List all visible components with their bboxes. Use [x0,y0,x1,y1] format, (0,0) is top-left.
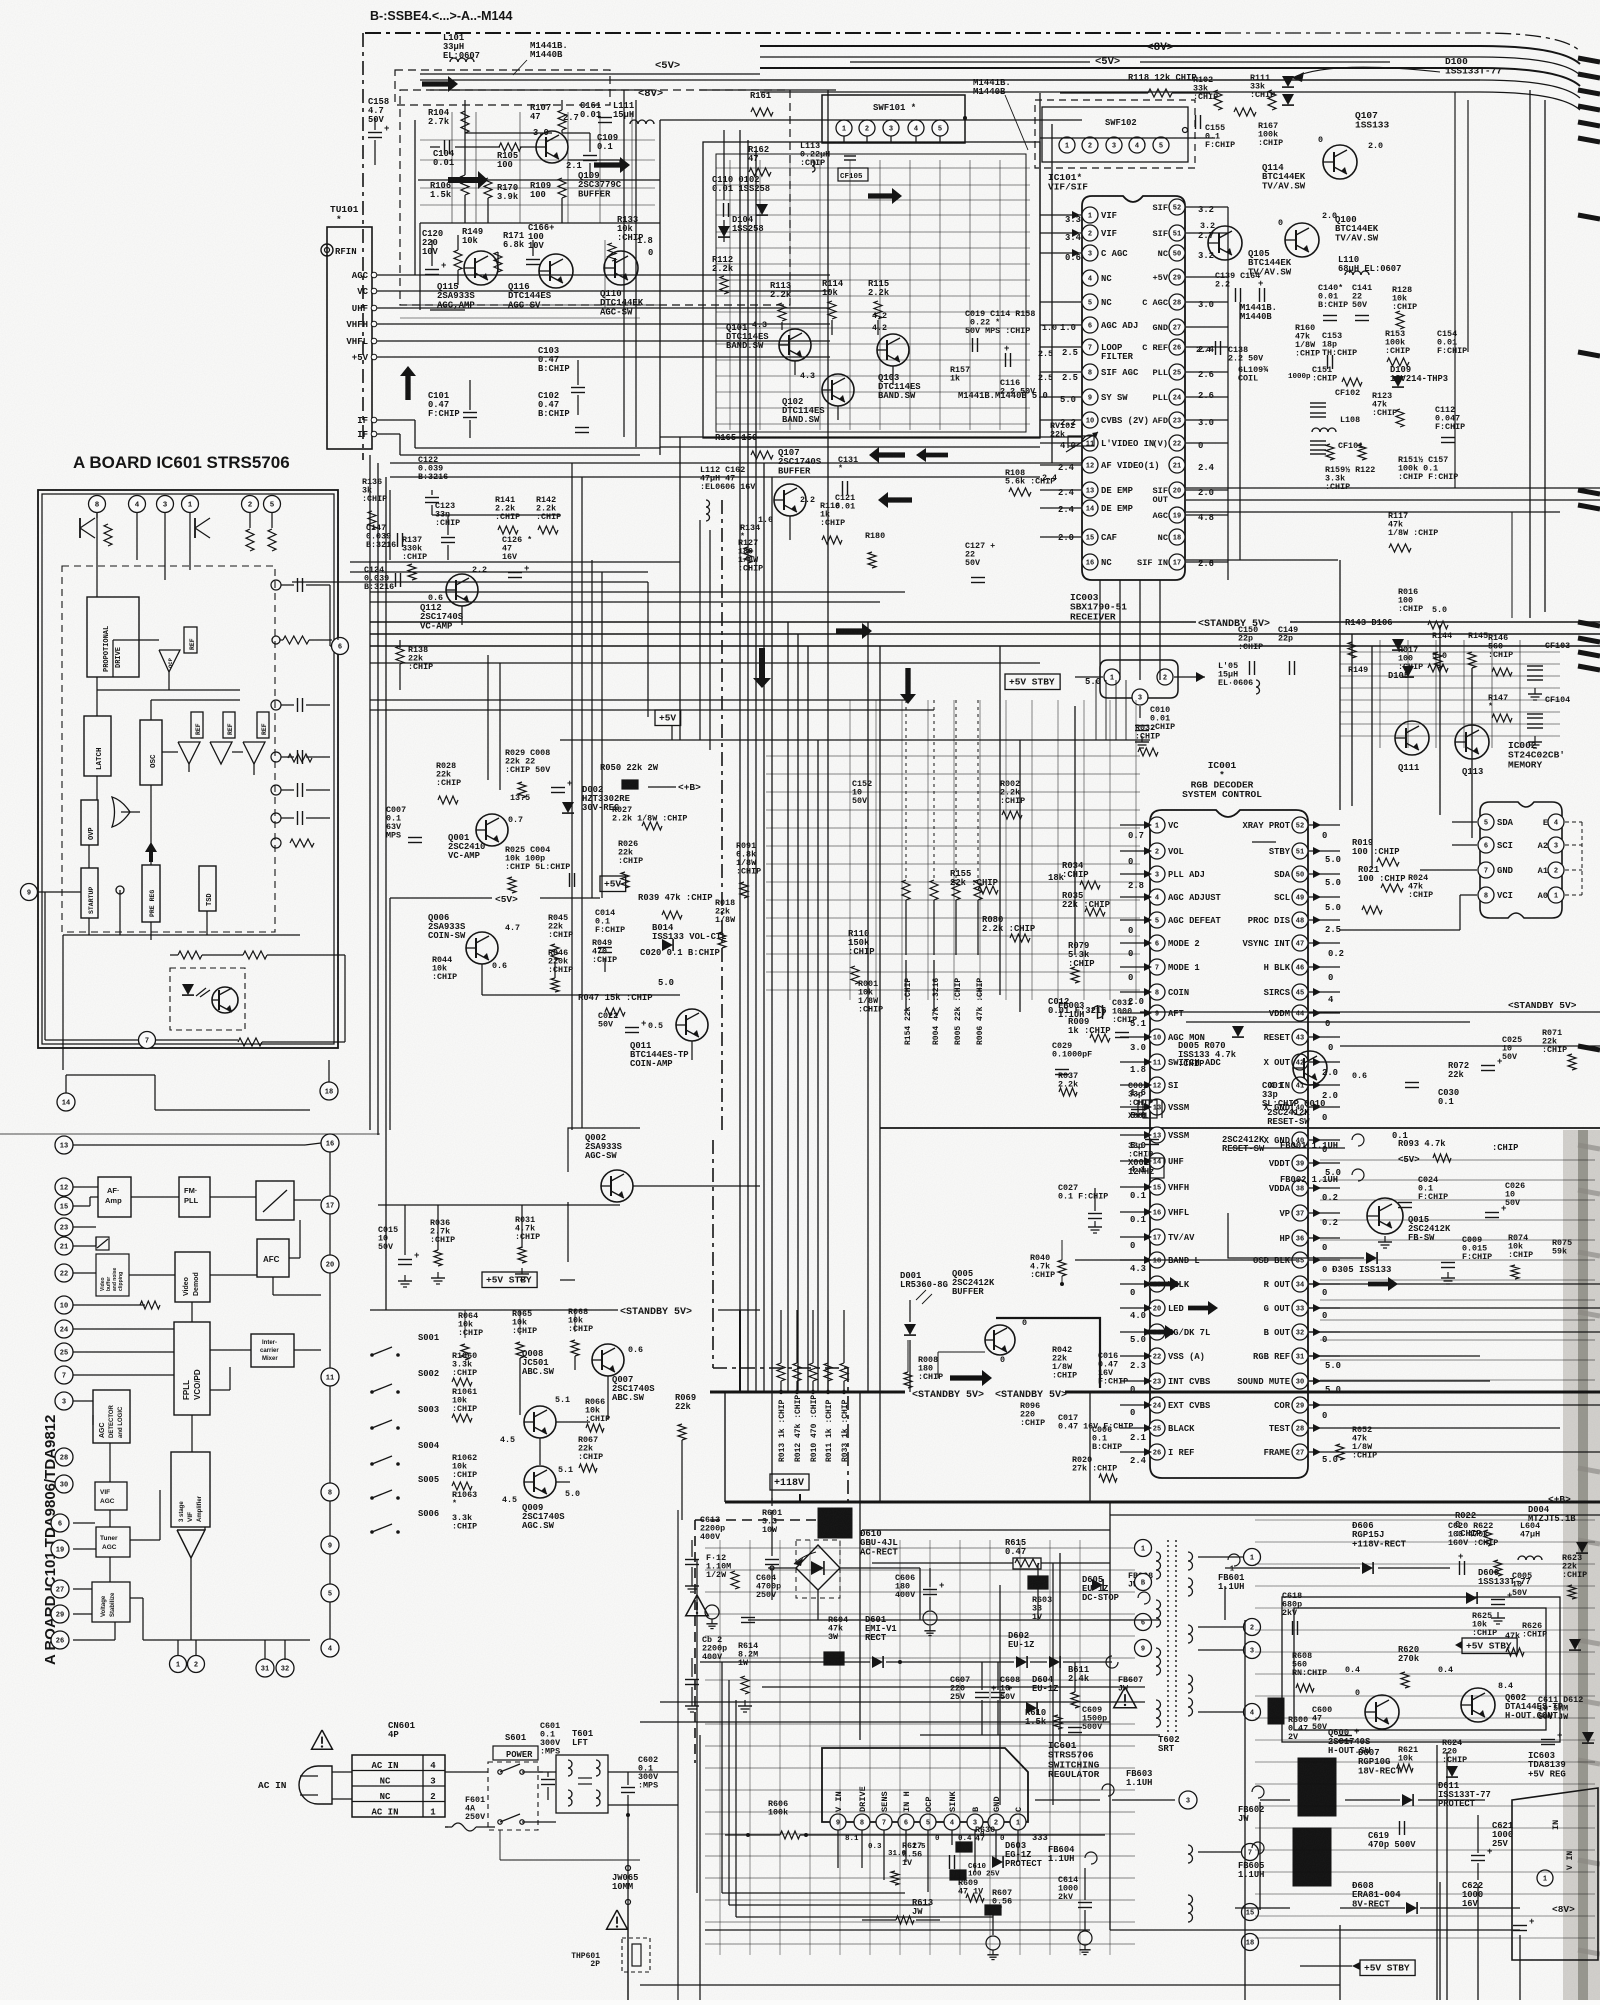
IC101 bottom pins [170,1656,295,1678]
resistor R036 [430,1218,455,1266]
IC101 VIF/SIF pin values [1058,205,1215,569]
capacitor C112b [1435,405,1465,443]
node pin 7 circle [139,1032,156,1049]
black module top [794,1508,852,1566]
transistor Q005 [938,1269,1100,1388]
block REF 4 [257,712,269,738]
transistor Q101 [726,320,811,361]
transformer T601 LFT [556,1729,608,1813]
resistor R069 [675,1393,696,1440]
capacitor C604 [705,1573,781,1629]
wire small arrows on pins [1072,211,1080,257]
fat arrow de-emp left [916,448,948,462]
resistor R161 [750,91,773,116]
resistor R137 [402,535,427,580]
fat arrow receiver down [900,668,916,704]
switch S003 [370,1405,439,1430]
capacitor C005 [1491,1571,1532,1624]
block REF 2 [191,712,203,738]
wire IC603 feed verticals [1437,1745,1447,2000]
diode D004 [1528,1505,1588,1553]
wire top-left cluster mesh [400,112,660,318]
thermistor THP601 [571,1902,650,2000]
wire center mesh horizontals [292,562,680,582]
transistor Q110 [600,248,653,317]
wire long vertical right [860,90,1545,2000]
resistor R104 [428,108,469,133]
resistor IC601 bottom 3 [238,1038,262,1046]
inductor L113 [800,141,830,172]
resistor R034 [1048,861,1100,889]
filter SWF101 [822,95,967,143]
capacitor C012 [1048,997,1107,1019]
transistor Q116 [508,254,573,310]
capacitor C127 [965,541,995,583]
resistor R136 [362,477,387,529]
resistor R134 [740,523,760,563]
resistor R091 [736,841,761,898]
wire long vertical bundle center [370,90,1075,1502]
label CN601 [388,1721,416,1740]
capacitor C600 [1312,1705,1359,1741]
resistor R620 [1398,1645,1453,1688]
wire power band texture [705,1540,1135,1955]
label STANDBY 5V mid [370,1307,760,1318]
block deemphasis slope [256,1181,294,1220]
transistor Q011 [630,1009,708,1069]
op-amp IC001 body [1150,760,1308,1478]
capacitor C153 [1322,331,1357,369]
capacitor C123 [435,501,460,543]
filter CF105 [838,156,868,181]
inductor L110 [1338,255,1401,275]
capacitor C121 [835,493,855,512]
wire q002 box [568,1128,760,1262]
resistor R607 [985,1888,1012,1960]
label +5V STBY boxed 2 [482,1272,537,1288]
node pin 14 circle [57,1075,310,1111]
capacitor C613 [685,1515,725,1592]
diode D602 [920,1631,1143,1694]
warning triangle power [686,1595,709,1616]
capacitor C166 [526,223,554,265]
node pin 18 circle [320,1060,338,1100]
wire top-right bus bundle [760,33,1580,110]
diode D100 pair [1282,56,1502,105]
op-amp OCP triangle [159,650,180,672]
resistor R117 [1388,511,1438,552]
capacitor C602 [621,1755,659,1815]
label STANDBY 5V right [1508,1000,1577,1011]
wire below IC101 bundle [1096,680,1126,740]
diode D607 black module [1260,1748,1485,1816]
inductor FB602 [1238,1786,1264,1824]
block REF 3 [223,712,235,738]
fat arrow center left2 [878,492,912,508]
resistor R037 [1058,1071,1078,1096]
wire IC101 diagram nets [73,1143,330,1660]
resistor R021 [1358,865,1406,892]
capacitor C608 diode D604 [991,1662,1090,1735]
resistor R022 [1455,1511,1492,1546]
capacitor C611 D612 [1538,1695,1594,1745]
resistor IC601 bottom 2 [243,951,267,959]
connector AC plug [258,1766,352,1804]
resistor R024 [1362,873,1433,914]
rectifier D610 bridge [768,1529,920,1620]
resistor R165 [715,433,773,459]
block LATCH [84,716,111,776]
resistor R029 capacitor C008 [505,748,572,798]
resistor R151 C157 [1398,455,1458,482]
label M1441B M1440B top [513,41,568,75]
transistor Q009 [502,1465,580,1531]
warning triangle CN601 [312,1730,333,1749]
capacitor C002 [1128,1081,1153,1121]
warning triangle JW065 [607,1910,628,1929]
capacitor C622 [1462,1881,1534,1931]
inductor FB603 [1035,1769,1197,1809]
label +118V boxed [770,1474,809,1502]
switch S002 [370,1369,477,1422]
memory IC002 left pins [1478,814,1514,903]
resistor R105 [497,143,521,170]
wire IF section outline [703,142,1040,438]
resistor R141 [495,495,520,534]
transistor Q107 buffer [758,448,822,525]
block AF-Amp [98,1177,131,1217]
resistor R005 vertical [952,700,963,1045]
filter CF102 [1310,388,1404,427]
inductor FB601b [1218,1554,1244,1592]
label STANDBY 5V rail top [370,619,1600,646]
label M1441B M1440B row [958,391,1048,401]
wire IC601 dashed control box [62,566,275,932]
label A BOARD IC601 STRS5706 [73,453,290,472]
resistor R027 [612,805,687,830]
capacitor C158 [368,97,389,165]
diode D105 [1348,665,1414,681]
transistor Q002 [585,1133,633,1202]
resistor R113 [770,281,792,321]
op-amp IC601 outer body [38,490,338,1048]
capacitor C619 [1368,1821,1416,1850]
op-amp comparator 2 [210,742,232,764]
resistor R142 [536,495,561,534]
diode D001 LED [900,1271,948,1392]
label 5V top rail [850,56,1390,68]
resistor R149 [454,227,483,270]
resistor R108 [1005,468,1057,496]
block STARTUP [81,868,98,918]
resistor R111 [1250,73,1276,110]
wire center mesh verticals [488,90,710,1130]
inductor L111 [613,101,654,124]
block Voltage Stabilize [92,1582,130,1622]
IC001 right pins upper [1242,817,1340,1115]
wire coin cluster [390,740,692,1130]
IC601 top pins [89,496,281,513]
resistor R155 [950,869,998,894]
wire agc cluster [420,223,533,310]
label M1441B/M1440B swf [973,78,1028,150]
transformer T602 [1135,1540,1261,1951]
resistor R603 [1028,1563,1052,1622]
capacitor C110 diode D102 [712,175,770,217]
wire right edge gray band [1563,1130,1600,2000]
diode D608 black module [1235,1828,1520,1914]
resistor R020 [1072,1455,1117,1482]
diode D603 [958,1841,1043,1902]
label 8V left [638,88,663,100]
capacitor C161 [580,101,612,123]
resistor R615 [872,1538,1110,1569]
block OSC [140,720,162,785]
capacitor C006 [1092,1425,1122,1452]
gate OR [112,797,130,827]
resistor R102 [1193,75,1222,110]
label M1441B M1440B mid [1240,303,1277,322]
node pin 13 circle [55,1136,73,1154]
switch S001 [370,1333,477,1386]
resistor R115 [868,279,890,321]
capacitor C019 C114 R158 [965,309,1057,352]
wire center dash-dot board border [695,500,848,1763]
resistor IC601 bottom 1 [178,951,202,959]
resistor R153b [1385,329,1410,366]
resistor R050 [600,763,659,789]
IC001 right pins lower [1237,1132,1340,1460]
fat arrow center right [836,623,872,639]
fat arrow mid-top [448,171,488,189]
wire long horizontal runs [370,138,1600,1985]
capacitor C139 C164 [1215,271,1265,302]
resistor R019 [1352,838,1400,866]
resistor R042 capacitor C016 [1052,1345,1128,1387]
capacitor C154 [1437,329,1467,356]
resistor R157 [950,344,1053,384]
resistor R112 [712,255,734,294]
capacitor C141 [1352,283,1372,321]
resistor R044 R046 R049 [432,938,720,992]
resistor R623 [1562,1553,1587,1599]
label +5V STBY boxed 1 [1005,674,1101,690]
resistor R064 R065 R068 [458,1307,593,1360]
capacitor C155 [1196,115,1236,150]
fat arrow video left [869,447,905,463]
resistor R128 [1392,285,1417,329]
diode D005 resistor R070 [1178,1026,1244,1069]
inductor L105 [1218,661,1260,694]
diode D611 [1438,1781,1491,1809]
fat arrow left column up [400,366,416,400]
transistor IC601 internal top-left [80,512,112,546]
capacitor C027 [1058,1183,1108,1233]
resistor R006 vertical [974,700,985,1045]
wire right cluster mesh [1340,640,1560,748]
resistor R627 [891,1841,922,1885]
IC101 left pins lower [51,1514,69,1649]
resistor R116 [800,495,845,544]
transistor IC601 internal top-mid [195,518,276,551]
wire buffer cluster [390,437,1082,580]
wire right lower extensions [1340,1405,1600,1452]
resistor R138 [396,645,433,672]
resistor R032 [1135,723,1160,756]
capacitor C150 [1238,625,1263,675]
regulator IC601 body [822,1740,1100,1858]
wire center band texture [766,700,1140,1000]
block video buffer [96,1254,129,1296]
resistor F612 [706,1553,739,1589]
label 8V bottom [1552,1904,1575,1915]
inductor FB604 [1048,1845,1097,1955]
resistor R162 [748,145,771,176]
resistor IC601 right 1 [272,636,332,644]
block 3 stage VIF Amplifier [171,1452,210,1558]
resistor R621 R624 [1397,1738,1467,1777]
resistor R127 [738,538,763,574]
label STBY bar [1252,841,1276,843]
capacitor C124 [364,565,401,592]
resistor R147 filter CF104 [1488,693,1570,748]
transistor Q107 top [1318,110,1390,179]
black module R600 [1268,1698,1308,1742]
resistor R072 capacitor C030 [1405,1061,1469,1107]
op-amp comparator 3 [243,742,265,764]
wire top-left net [420,100,660,223]
capacitor C122 [418,455,448,503]
resistor R066 [585,1397,610,1432]
wire regulator nets [697,1560,1090,2000]
capacitor C140 [1318,283,1348,321]
wire IF box inner mesh [716,160,1030,430]
wire IC601 bottom nets [45,886,345,1070]
block PRE REG [142,842,160,922]
block FM-PLL [179,1177,210,1217]
filter SWF102 dashed [1035,100,1195,168]
capacitor C620 R622 L604 [1448,1521,1542,1576]
capacitor C138 [1196,341,1264,364]
block Tuner AGC [96,1527,130,1557]
label A BOARD IC101 TDA9806/TDA9812 [42,1415,59,1665]
wire memory nets [1340,822,1477,930]
filter CF101 [1310,441,1363,454]
capacitor C601 [540,1721,561,1800]
resistor R040 [1030,1240,1340,1286]
switch S601 POWER [488,1733,538,1830]
block VIF AGC [95,1482,127,1510]
capacitor C109 [583,133,618,161]
capacitor C606 [895,1568,944,1636]
block AGC DETECTOR and LOGIC [93,1390,130,1443]
wire stby net [378,1205,620,1287]
capacitor C102 [538,391,589,433]
crystal X001 [1138,1100,1162,1118]
fat arrow mid right [868,188,902,204]
label +5V STBY bottom [1300,1960,1415,1976]
wire top-left dashed alignment box [395,70,790,305]
capacitor C116 [1000,373,1053,397]
diode D605 [1082,1571,1153,1604]
resistor R154 vertical [902,700,913,1045]
transistor Q105 [1200,221,1292,277]
node pin 6 circle [332,638,349,655]
resistor R613 [862,1898,940,1924]
variable resistor RV102 [1050,421,1098,452]
diode D104 [718,215,764,237]
label +5V boxed 2 [600,876,626,892]
label 5V mid-top [430,60,836,90]
wire horizontal scan seam [0,1128,1600,1134]
resistor R025 capacitor C004 resistor R026 [505,839,643,893]
resistor R096 capacitor C017 [1020,1401,1133,1432]
wire tuner outputs [377,120,830,455]
op-amp IC101 VIF/SIF body [1048,172,1185,580]
warning triangle T602 [1114,1687,1137,1708]
wire right band texture [1255,1160,1595,1938]
wire IC601 internals [38,512,272,940]
resistor R031 [515,1215,540,1263]
wire switch cluster nets [370,1310,682,1532]
resistor R180 [865,531,885,568]
block PROPORTIONAL DRIVE [87,597,139,677]
resistor column R013-R033 [777,1310,850,1462]
tuner pin labels [346,271,376,440]
capacitor C015 [378,1225,419,1265]
resistor R143 diode D106 [1345,618,1488,668]
label STANDBY 5V low [912,1390,984,1401]
inductor FB003 capacitor C031 [1058,998,1137,1038]
connector CN601 body [352,1755,445,1818]
block Video Demod [175,1252,210,1302]
capacitor C152 [852,779,872,806]
wire top dash-dot board border [363,33,1225,460]
transistor Q600 [1328,1688,1399,1756]
wire IC101 right verticals [1100,207,1240,680]
op-amp comparator 1 [178,742,200,764]
connector RF IN [321,244,357,257]
capacitor IC601 right rows [271,578,330,848]
inductor FB605 [1238,1842,1264,1880]
label 5V angled [390,894,600,905]
capacitor C010 [1135,705,1175,748]
inductor L108 [1312,415,1360,432]
resistor R604 [824,1615,848,1665]
inductor L101 label [443,33,480,62]
capacitor C029 [1052,1041,1092,1075]
resistor R079 [1068,941,1095,983]
resistor R601 [762,1498,782,1600]
resistor R106 [430,175,469,200]
transistor Q102 [782,371,854,425]
memory IC002 right pins [1538,814,1582,903]
node B-:SSBE4 title [370,9,512,23]
capacitor C618 [1282,1591,1302,1635]
label +B right arrow [648,782,701,793]
inductor FB002 [1280,1169,1525,1218]
resistor R002 [1000,779,1025,819]
memory IC002 body [1480,740,1565,918]
capacitor IC101 area small parts [93,1301,160,1425]
capacitor C103a [538,346,585,415]
capacitor C120 [422,229,446,275]
resistor R016 [1398,587,1448,629]
optocoupler IC601 bottom [170,968,245,1030]
inductor L112 [700,465,756,521]
block TSD [199,866,216,911]
block sync sep small [96,1237,109,1250]
